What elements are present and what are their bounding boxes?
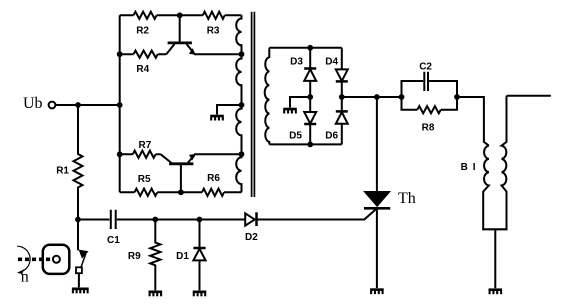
junction transformer tap 2 ground <box>239 102 245 108</box>
cam dashed shaft <box>18 257 53 261</box>
svg-text:R8: R8 <box>422 123 435 134</box>
wire C1 left <box>78 219 110 221</box>
wire coil bottom <box>482 228 507 230</box>
junction RC left <box>399 94 405 100</box>
wire RC bottom branch <box>402 97 458 110</box>
wire Q1 emitter to transformer <box>194 53 242 55</box>
diode D2 <box>245 212 256 226</box>
ground at coil <box>489 290 503 295</box>
resistor R9 <box>150 220 160 291</box>
rotation arrowhead <box>17 269 24 274</box>
ground at transformer tap <box>210 116 224 121</box>
resistor R4 <box>134 51 158 58</box>
junction left rail at Ub <box>117 102 123 108</box>
junction R1 bottom <box>75 217 81 223</box>
junction thyristor anode <box>374 94 380 100</box>
ground at D1 <box>193 292 207 297</box>
junction bridge top <box>307 45 313 51</box>
transistor Q2 bar <box>169 162 193 165</box>
svg-text:C1: C1 <box>107 235 120 246</box>
junction transformer tap 1 <box>239 51 245 57</box>
transistor Q1 emitter lead <box>187 44 195 53</box>
thyristor Th <box>364 97 390 288</box>
junction R4 left <box>117 51 123 57</box>
wire coil to ground <box>494 229 496 288</box>
wire bridge to RC <box>342 96 402 98</box>
wire D2 to thyristor gate <box>257 210 376 220</box>
svg-text:Th: Th <box>398 190 416 207</box>
breaker pivot square <box>76 267 82 273</box>
junction RC right <box>454 94 460 100</box>
junction bridge bottom <box>307 142 313 148</box>
wire top rail <box>120 14 242 16</box>
junction bridge mid right <box>339 94 345 100</box>
svg-text:R1: R1 <box>56 165 69 176</box>
diode D5 <box>304 97 316 144</box>
wire bridge ground stub <box>290 97 310 108</box>
ground at R9 <box>149 292 163 297</box>
wire to breaker <box>77 220 79 251</box>
svg-text:n: n <box>21 269 29 286</box>
junction bridge mid left <box>307 94 313 100</box>
transistor Q2 emitter arrow <box>189 154 196 161</box>
svg-text:R9: R9 <box>128 251 141 262</box>
coil B1 primary winding <box>483 146 489 230</box>
wire base rail R5 R6 <box>120 191 242 193</box>
svg-text:D1: D1 <box>176 251 189 262</box>
wire bridge bottom rail <box>269 143 342 145</box>
resistor R2 <box>134 12 157 19</box>
terminal Ub <box>49 102 56 109</box>
wire left rail <box>119 15 121 192</box>
svg-text:D4: D4 <box>325 56 338 67</box>
transformer T1 secondary winding <box>265 48 270 145</box>
svg-text:D3: D3 <box>290 56 303 67</box>
capacitor C2 <box>424 72 428 91</box>
resistor R1 <box>74 105 83 220</box>
wire bridge top rail <box>269 47 342 49</box>
svg-text:R5: R5 <box>138 174 151 185</box>
svg-text:R3: R3 <box>207 25 220 36</box>
diode D6 <box>336 97 348 144</box>
diode D3 <box>304 48 316 97</box>
transformer T1 primary winding <box>236 15 241 192</box>
cam circle <box>53 256 60 263</box>
svg-text:B I: B I <box>461 162 477 173</box>
resistor R7 <box>133 151 156 158</box>
ground at breaker <box>72 289 89 294</box>
svg-text:Ub: Ub <box>23 95 43 112</box>
breaker lever <box>81 254 86 268</box>
junction R1 top <box>75 102 81 108</box>
transistor Q2 emitter lead <box>188 155 195 162</box>
wire C1 to D2 <box>117 219 245 221</box>
wire Q2 emitter to transformer <box>194 153 242 155</box>
resistor R6 <box>202 189 224 196</box>
svg-text:R6: R6 <box>207 173 220 184</box>
resistor R3 <box>203 12 225 19</box>
diode D1 <box>193 220 205 291</box>
svg-text:D6: D6 <box>325 130 338 141</box>
transistor Q2 base lead <box>180 164 182 193</box>
ground at thyristor <box>370 290 384 295</box>
svg-text:D5: D5 <box>289 130 302 141</box>
wire breaker to ground <box>78 273 80 287</box>
transistor Q1 base lead <box>179 15 181 42</box>
resistor R5 <box>135 189 158 196</box>
transistor Q1 collector lead <box>166 44 174 54</box>
junction Q2 base <box>178 189 184 195</box>
resistor R8 <box>417 106 441 113</box>
wire RC top branch <box>402 81 458 97</box>
breaker contact blob <box>79 250 89 259</box>
wire RC to coil <box>457 97 489 146</box>
svg-text:R2: R2 <box>136 25 149 36</box>
svg-text:R4: R4 <box>136 64 149 75</box>
capacitor C1 <box>111 210 116 229</box>
junction base Q1 <box>177 12 183 18</box>
transistor Q1 emitter arrow <box>189 48 196 55</box>
diode D4 <box>336 48 348 97</box>
transistor Q2 collector lead <box>161 154 172 163</box>
ground at bridge <box>283 109 297 114</box>
svg-text:D2: D2 <box>245 232 258 243</box>
wire R7 branch <box>120 153 161 155</box>
wire Ub to left rail <box>55 104 119 106</box>
transformer T1 core <box>252 12 255 197</box>
junction R9 top <box>152 217 158 223</box>
wire HT output <box>507 95 551 97</box>
junction transformer tap 3 <box>239 151 245 157</box>
cam box <box>43 245 70 274</box>
coil B1 secondary winding <box>502 96 507 230</box>
wire R4 branch <box>120 53 167 55</box>
junction D1 top <box>197 217 203 223</box>
junction R7 left <box>117 151 123 157</box>
transistor Q1 bar <box>168 42 192 45</box>
rotation arc n <box>17 246 30 271</box>
svg-text:R7: R7 <box>139 140 152 151</box>
wire tap2 to ground <box>217 105 242 115</box>
svg-text:C2: C2 <box>419 61 432 72</box>
